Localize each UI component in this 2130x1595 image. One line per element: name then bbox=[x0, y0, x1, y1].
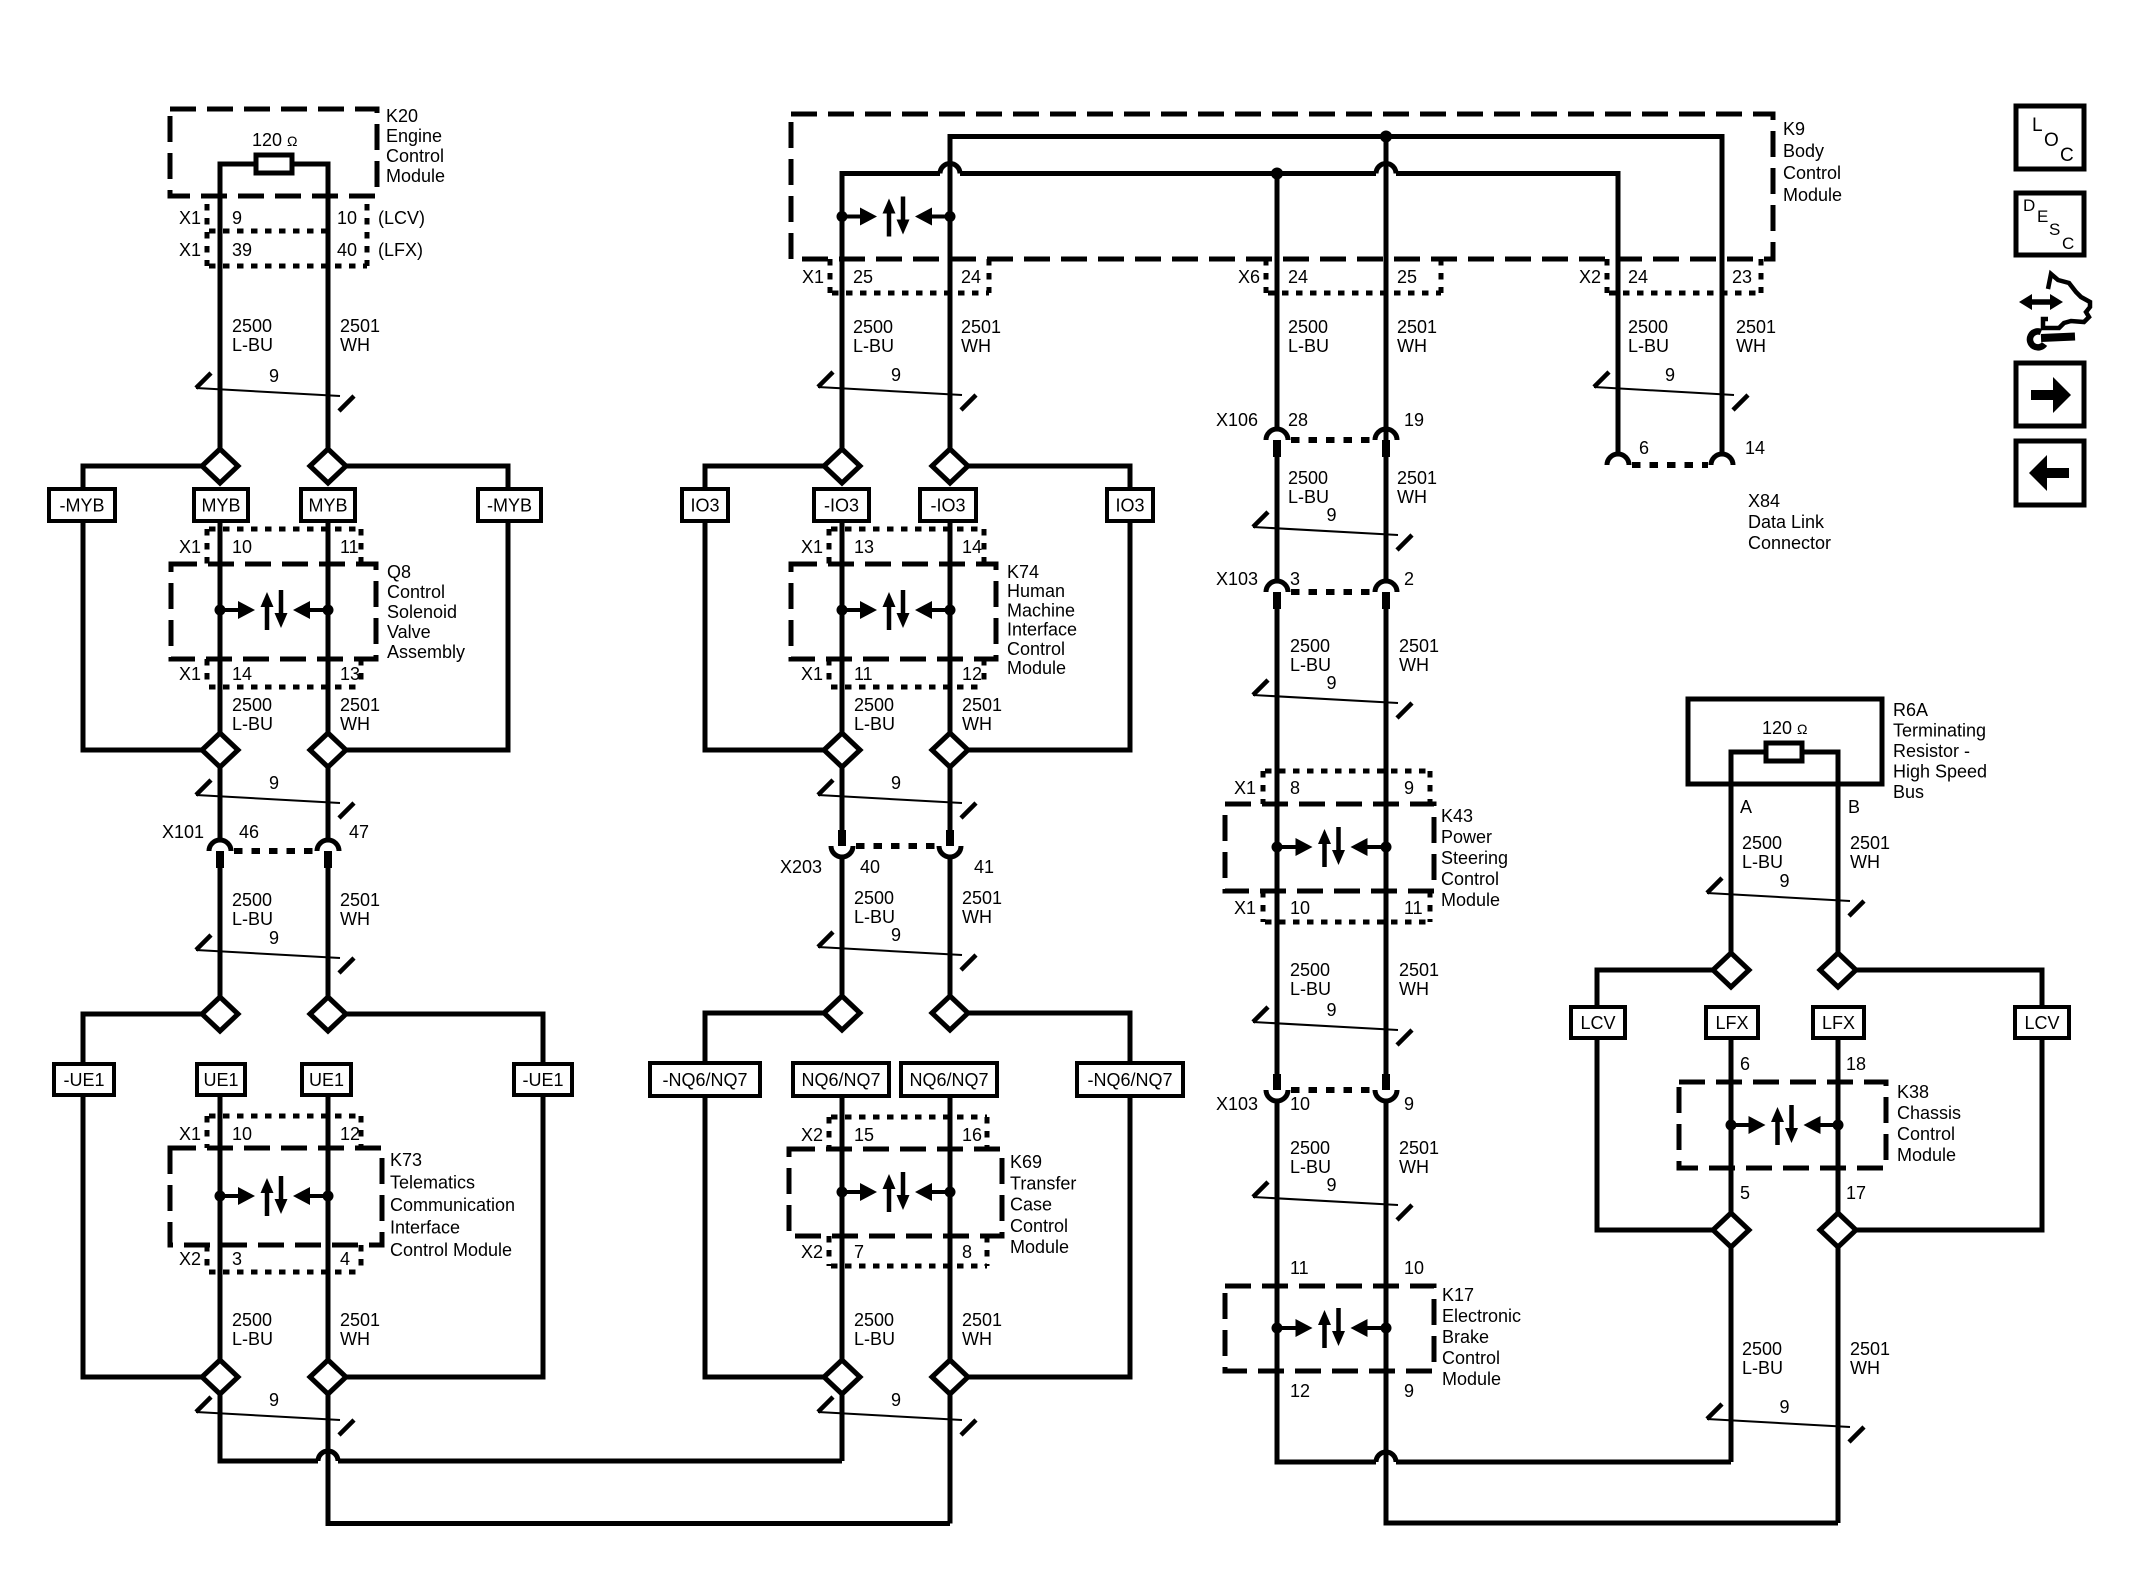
svg-text:WH: WH bbox=[1736, 336, 1766, 356]
splice node on 2500 (top of K38 row) bbox=[1713, 953, 1749, 987]
splice node on 2501 (bottom of K73 row) bbox=[310, 1360, 346, 1394]
svg-text:Ω: Ω bbox=[287, 133, 297, 149]
splice node on 2500 (bottom of K74 row) bbox=[824, 733, 860, 767]
connector X106 dotted line bbox=[1291, 437, 1372, 443]
svg-text:9: 9 bbox=[269, 1390, 279, 1410]
svg-text:2501: 2501 bbox=[962, 695, 1002, 715]
splice node on 2500 (top of Q8 row) bbox=[202, 449, 238, 483]
svg-text:B: B bbox=[1848, 797, 1860, 817]
svg-text:2501: 2501 bbox=[340, 695, 380, 715]
wire 2501 WH from K9 X1-24 bbox=[948, 134, 953, 449]
wire drop into IO3 box bbox=[703, 464, 708, 492]
svg-text:X1: X1 bbox=[179, 1124, 201, 1144]
net name box MYB (left) bbox=[194, 489, 248, 521]
svg-text:9: 9 bbox=[891, 365, 901, 385]
connector hook X101 pin 46 bbox=[209, 840, 231, 851]
pin box right edge (K74 top) bbox=[982, 529, 987, 564]
twisted-pair marker (to K69 row), 9 bbox=[818, 925, 976, 970]
wire 2501 WH through K74 bbox=[948, 519, 953, 733]
svg-text:LFX: LFX bbox=[1715, 1013, 1748, 1033]
svg-text:-UE1: -UE1 bbox=[522, 1070, 563, 1090]
connector hook X84 pin 14 bbox=[1711, 454, 1733, 465]
net name box -UE1 (right) bbox=[514, 1064, 572, 1095]
svg-text:X1: X1 bbox=[802, 267, 824, 287]
twisted-pair marker (K43 to X103), 9 bbox=[1253, 1000, 1412, 1045]
svg-text:WH: WH bbox=[1850, 1358, 1880, 1378]
module K9 Body Control Module (dashed outline) bbox=[791, 114, 1773, 259]
bus wire to -NQ6/NQ7 branch bbox=[705, 1011, 824, 1016]
svg-text:14: 14 bbox=[962, 537, 982, 557]
connector hook X103 pin 3 bbox=[1266, 581, 1288, 592]
net name box -IO3 (left) bbox=[814, 489, 869, 521]
splice node on 2500 (top of K69 row) bbox=[824, 996, 860, 1030]
pin box right edge (K43 top) bbox=[1428, 771, 1433, 804]
svg-text:X2: X2 bbox=[179, 1249, 201, 1269]
connector stub X203 pin 41 bbox=[946, 830, 954, 846]
wire resistor left lead bbox=[222, 162, 256, 167]
svg-text:2501: 2501 bbox=[962, 1310, 1002, 1330]
net name box NQ6/NQ7 (left) bbox=[793, 1063, 889, 1096]
wire 2501 WH through K38 bbox=[1836, 1036, 1841, 1213]
wire 2501 WH from K9 X6-25 through X106 bbox=[1384, 137, 1389, 582]
net name box LFX (left) bbox=[1706, 1007, 1758, 1038]
svg-text:-IO3: -IO3 bbox=[824, 496, 859, 516]
wire from LCV box to lower bus right bbox=[2040, 1036, 2045, 1233]
svg-text:-NQ6/NQ7: -NQ6/NQ7 bbox=[662, 1070, 747, 1090]
wire 2500 L-BU rise to K69 bbox=[840, 1394, 845, 1461]
splice node on 2500 (bottom of K73 row) bbox=[202, 1360, 238, 1394]
wire drop into -NQ6/NQ7 box right bbox=[1128, 1011, 1133, 1066]
svg-text:X1: X1 bbox=[179, 537, 201, 557]
svg-text:L-BU: L-BU bbox=[232, 335, 273, 355]
module K73 Telematics Communication Interface Control Module (dashed outline) bbox=[170, 1148, 382, 1245]
wire resistor right lead (R6A) bbox=[1802, 750, 1838, 755]
wire 2501 WH X103 to K17 and cross-link bbox=[1384, 1101, 1389, 1526]
svg-text:LCV: LCV bbox=[1580, 1013, 1615, 1033]
wire 2500 L-BU from R6A pin A bbox=[1729, 750, 1734, 954]
svg-text:9: 9 bbox=[1326, 1000, 1336, 1020]
wire 2500 L-BU from X101 bbox=[218, 860, 223, 997]
svg-text:17: 17 bbox=[1846, 1183, 1866, 1203]
svg-text:9: 9 bbox=[269, 928, 279, 948]
svg-text:39: 39 bbox=[232, 240, 252, 260]
svg-text:9: 9 bbox=[1326, 1175, 1336, 1195]
wire 2501 WH cross-link K17 to K38 bbox=[1384, 1521, 1839, 1526]
wire 2501 WH to X2 pin 23 / X84 bbox=[1720, 134, 1725, 456]
wire from -NQ6/NQ7 box to lower bus bbox=[703, 1094, 708, 1380]
bus wire to IO3 branch right bbox=[968, 464, 1130, 469]
splice node on 2501 (bottom of K74 row) bbox=[932, 733, 968, 767]
net name box UE1 (right) bbox=[302, 1064, 351, 1095]
svg-text:14: 14 bbox=[1745, 438, 1765, 458]
svg-text:11: 11 bbox=[854, 664, 873, 684]
connector hook X103 pin 10 bbox=[1266, 1090, 1288, 1101]
svg-text:NQ6/NQ7: NQ6/NQ7 bbox=[909, 1070, 988, 1090]
pin box divider (K43 bottom) bbox=[1261, 891, 1266, 922]
svg-text:3: 3 bbox=[1290, 569, 1300, 589]
svg-text:9: 9 bbox=[269, 366, 279, 386]
svg-text:13: 13 bbox=[340, 664, 360, 684]
svg-text:2501: 2501 bbox=[961, 317, 1001, 337]
svg-text:L-BU: L-BU bbox=[1288, 336, 1329, 356]
pin box bottom edge (Q8) bbox=[209, 685, 361, 690]
wire 2500 L-BU from K9 X1-25 bbox=[840, 171, 845, 449]
splice node on 2500 (top of K73 row) bbox=[202, 997, 238, 1031]
bus wire from IO3 branch bbox=[705, 748, 824, 753]
wire drop into -UE1 box right bbox=[541, 1012, 546, 1067]
svg-text:L-BU: L-BU bbox=[1290, 1157, 1331, 1177]
svg-text:2500: 2500 bbox=[854, 695, 894, 715]
svg-text:WH: WH bbox=[340, 909, 370, 929]
CAN transceiver symbol inside K43 bbox=[1272, 827, 1392, 867]
wire 2501 WH through K69 bbox=[948, 1094, 953, 1360]
svg-text:-IO3: -IO3 bbox=[930, 496, 965, 516]
svg-text:5: 5 bbox=[1740, 1183, 1750, 1203]
svg-text:WH: WH bbox=[1399, 655, 1429, 675]
pin box right edge (K43 bottom) bbox=[1428, 891, 1433, 922]
pin box divider (K73 top) bbox=[205, 1116, 210, 1148]
bus wire to IO3 branch bbox=[705, 464, 824, 469]
svg-text:10: 10 bbox=[1404, 1258, 1424, 1278]
twisted-pair marker (X106 to X103), 9 bbox=[1253, 505, 1412, 550]
net name box -MYB (right) bbox=[478, 489, 541, 521]
net name box -NQ6/NQ7 (left) bbox=[650, 1063, 760, 1096]
svg-text:2500: 2500 bbox=[1628, 317, 1668, 337]
svg-text:2501: 2501 bbox=[1397, 468, 1437, 488]
svg-text:S: S bbox=[2049, 220, 2060, 239]
pin box divider (K74 top) bbox=[827, 529, 832, 564]
pin box divider (K43 top) bbox=[1261, 771, 1266, 804]
connector hook X84 pin 6 bbox=[1607, 454, 1629, 465]
svg-text:X101: X101 bbox=[162, 822, 204, 842]
wire 2501 WH through K73 bbox=[326, 1093, 331, 1360]
CAN transceiver symbol inside K73 bbox=[215, 1176, 334, 1216]
svg-text:120: 120 bbox=[252, 130, 282, 150]
pin box right edge (K9 X2) bbox=[1759, 259, 1764, 293]
svg-text:19: 19 bbox=[1404, 410, 1424, 430]
svg-text:L-BU: L-BU bbox=[232, 1329, 273, 1349]
svg-text:-UE1: -UE1 bbox=[63, 1070, 104, 1090]
connector hook X203 pin 40 bbox=[831, 846, 853, 857]
pin box right edge (K9 X6) bbox=[1439, 259, 1444, 293]
svg-text:2500: 2500 bbox=[1290, 960, 1330, 980]
svg-text:C: C bbox=[2062, 234, 2074, 253]
pin box bottom edge (K20) bbox=[209, 264, 367, 269]
svg-text:11: 11 bbox=[1290, 1258, 1309, 1278]
pin box right edge (K69 top) bbox=[985, 1117, 990, 1149]
svg-text:L: L bbox=[2032, 115, 2043, 136]
wire drop into -NQ6/NQ7 box bbox=[703, 1011, 708, 1066]
svg-text:9: 9 bbox=[1326, 505, 1336, 525]
pin box divider (Q8 top) bbox=[205, 529, 210, 564]
wire drop into -MYB box right bbox=[506, 464, 511, 492]
wire 2500 L-BU cross-link K17 to K38 (hop over 2501) bbox=[1275, 1452, 1732, 1462]
bus wire from -MYB branch right bbox=[346, 748, 508, 753]
svg-text:9: 9 bbox=[1404, 1381, 1414, 1401]
net name box LFX (right) bbox=[1813, 1007, 1864, 1038]
wire resistor right lead bbox=[292, 162, 330, 167]
svg-text:L-BU: L-BU bbox=[854, 1329, 895, 1349]
svg-text:MYB: MYB bbox=[308, 496, 347, 516]
bus wire to LCV branch bbox=[1597, 968, 1713, 973]
connector hook X101 pin 47 bbox=[317, 840, 339, 851]
svg-text:2500: 2500 bbox=[1288, 468, 1328, 488]
pin box divider (Q8 bottom) bbox=[205, 659, 210, 687]
svg-text:X1: X1 bbox=[1234, 778, 1256, 798]
pin box divider (K20) bbox=[205, 204, 210, 266]
wire 2500 L-BU to X101 bbox=[218, 767, 223, 840]
wire 2501 WH to X203 bbox=[948, 767, 953, 830]
svg-text:X103: X103 bbox=[1216, 1094, 1258, 1114]
connector X84 dotted line bbox=[1632, 462, 1708, 468]
wire 2500 L-BU to X2 pin 24 / X84 bbox=[1616, 171, 1621, 456]
svg-text:9: 9 bbox=[891, 1390, 901, 1410]
bus wire to LCV branch right bbox=[1856, 968, 2042, 973]
wire 2501 WH from X203 bbox=[948, 857, 953, 996]
wire from IO3 box to lower bus bbox=[703, 519, 708, 753]
svg-text:WH: WH bbox=[1397, 336, 1427, 356]
svg-text:9: 9 bbox=[1779, 871, 1789, 891]
twisted-pair marker (K20 to splice), 9 bbox=[196, 366, 354, 411]
bus wire from -NQ6/NQ7 branch right bbox=[968, 1375, 1130, 1380]
splice node on 2501 (top of K73 row) bbox=[310, 997, 346, 1031]
pin box right edge (K73 bottom) bbox=[359, 1245, 364, 1272]
svg-text:X1: X1 bbox=[179, 240, 201, 260]
svg-text:24: 24 bbox=[1628, 267, 1648, 287]
svg-text:L-BU: L-BU bbox=[854, 907, 895, 927]
wire 2501 WH through Q8 bbox=[326, 519, 331, 733]
svg-text:LCV: LCV bbox=[2024, 1013, 2059, 1033]
svg-text:9: 9 bbox=[269, 773, 279, 793]
pin box divider (K74 bottom) bbox=[827, 659, 832, 687]
svg-text:X2: X2 bbox=[801, 1242, 823, 1262]
twisted-pair marker (X103 to K17), 9 bbox=[1253, 1175, 1412, 1220]
wire 2501 WH cross-link K73 to K69 bbox=[326, 1521, 951, 1526]
twisted-pair marker (to X101), 9 bbox=[196, 773, 354, 818]
connector stub X103 pin 10 bbox=[1273, 1074, 1281, 1090]
splice node on 2501 (bottom of K38 row) bbox=[1820, 1213, 1856, 1247]
bus wire to -UE1 branch bbox=[83, 1012, 202, 1017]
svg-text:4: 4 bbox=[340, 1249, 350, 1269]
svg-text:WH: WH bbox=[1850, 852, 1880, 872]
svg-text:6: 6 bbox=[1740, 1054, 1750, 1074]
svg-text:2500: 2500 bbox=[854, 1310, 894, 1330]
svg-text:UE1: UE1 bbox=[203, 1070, 238, 1090]
net name box IO3 (right) bbox=[1107, 489, 1153, 521]
svg-text:2501: 2501 bbox=[1397, 317, 1437, 337]
svg-text:40: 40 bbox=[337, 240, 357, 260]
module K20 Engine Control Module (dashed outline) bbox=[170, 109, 377, 196]
svg-text:X1: X1 bbox=[179, 664, 201, 684]
twisted-pair marker (K9 to X84), 9 bbox=[1594, 365, 1748, 410]
svg-text:WH: WH bbox=[962, 1329, 992, 1349]
connector hook X103 pin 2 bbox=[1375, 581, 1397, 592]
K9 internal bus CAN-low (hops over crossing wires) bbox=[842, 164, 1618, 174]
pin box divider (K9 X1) bbox=[828, 259, 833, 293]
svg-text:25: 25 bbox=[853, 267, 873, 287]
CAN transceiver symbol inside K69 bbox=[837, 1172, 956, 1212]
svg-text:X203: X203 bbox=[780, 857, 822, 877]
pin box right edge (K20) bbox=[365, 204, 370, 266]
svg-text:WH: WH bbox=[962, 907, 992, 927]
svg-text:C: C bbox=[2060, 145, 2074, 166]
wire from -MYB box to lower bus bbox=[81, 519, 86, 753]
svg-text:16: 16 bbox=[962, 1125, 982, 1145]
svg-text:9: 9 bbox=[891, 925, 901, 945]
svg-text:WH: WH bbox=[1397, 487, 1427, 507]
svg-text:10: 10 bbox=[1290, 1094, 1310, 1114]
svg-text:-MYB: -MYB bbox=[60, 496, 105, 516]
bus wire from -NQ6/NQ7 branch bbox=[705, 1375, 824, 1380]
svg-text:WH: WH bbox=[340, 1329, 370, 1349]
pin box bottom edge (K69) bbox=[831, 1264, 987, 1269]
module K74 Human Machine Interface Control Module (dashed outline) bbox=[791, 564, 996, 659]
svg-text:2500: 2500 bbox=[853, 317, 893, 337]
wire 2501 WH rise to K69 bbox=[948, 1394, 953, 1524]
svg-text:WH: WH bbox=[1399, 979, 1429, 999]
wire 2500 L-BU through K69 bbox=[840, 1094, 845, 1360]
svg-text:9: 9 bbox=[1326, 673, 1336, 693]
pin box top edge (K74) bbox=[831, 527, 984, 532]
svg-text:(LFX): (LFX) bbox=[378, 240, 423, 260]
svg-text:A: A bbox=[1740, 797, 1752, 817]
svg-text:14: 14 bbox=[232, 664, 252, 684]
connector X103 dotted line (second) bbox=[1291, 1087, 1372, 1093]
wire 2501 WH from R6A pin B bbox=[1836, 750, 1841, 954]
wire drop into -UE1 box bbox=[81, 1012, 86, 1067]
splice node on 2501 (bottom of Q8 row) bbox=[310, 733, 346, 767]
svg-text:24: 24 bbox=[961, 267, 981, 287]
icon button DESC bbox=[2016, 193, 2084, 255]
svg-text:L-BU: L-BU bbox=[1742, 852, 1783, 872]
svg-text:NQ6/NQ7: NQ6/NQ7 bbox=[801, 1070, 880, 1090]
wire from -UE1 box to lower bus bbox=[81, 1093, 86, 1380]
bus wire from -UE1 branch bbox=[83, 1375, 202, 1380]
wire 2501 WH down to cross-link bbox=[1836, 1247, 1841, 1523]
svg-text:WH: WH bbox=[962, 714, 992, 734]
svg-text:IO3: IO3 bbox=[1115, 496, 1144, 516]
CAN transceiver symbol inside K9 bbox=[837, 197, 956, 237]
svg-text:E: E bbox=[2037, 207, 2048, 226]
junction dot K9 bus to X6 pin 24 bbox=[1271, 168, 1283, 180]
wire 2500 L-BU through K73 bbox=[218, 1093, 223, 1360]
svg-text:2500: 2500 bbox=[1742, 1339, 1782, 1359]
connector hook X103 pin 9 bbox=[1375, 1090, 1397, 1101]
connector stub X106 pin 19 bbox=[1382, 440, 1390, 457]
K9 internal bus CAN-high bbox=[950, 134, 1722, 139]
svg-text:2500: 2500 bbox=[232, 1310, 272, 1330]
svg-text:X106: X106 bbox=[1216, 410, 1258, 430]
svg-text:8: 8 bbox=[1290, 778, 1300, 798]
junction dot K9 bus to X6 pin 25 bbox=[1380, 131, 1392, 143]
net name box UE1 (left) bbox=[197, 1064, 245, 1095]
wire resistor left lead (R6A) bbox=[1731, 750, 1766, 755]
icon button next (right arrow) bbox=[2016, 363, 2084, 426]
svg-text:11: 11 bbox=[1404, 898, 1423, 918]
connector stub X101 pin 46 bbox=[216, 851, 224, 868]
wire 2501 WH down to cross-link bbox=[326, 1394, 331, 1526]
bus wire to -NQ6/NQ7 branch right bbox=[968, 1011, 1130, 1016]
svg-text:2500: 2500 bbox=[1288, 317, 1328, 337]
wire 2501 WH X106 to X103 bbox=[1384, 449, 1389, 581]
wire 2500 L-BU from X203 bbox=[840, 857, 845, 996]
connector stub X103 pin 3 bbox=[1273, 592, 1281, 609]
connector hook X106 pin 28 bbox=[1266, 429, 1288, 440]
wire from LCV box to lower bus bbox=[1595, 1036, 1600, 1233]
svg-text:18: 18 bbox=[1846, 1054, 1866, 1074]
pin box right edge (K74 bottom) bbox=[982, 659, 987, 687]
svg-text:D: D bbox=[2023, 196, 2035, 215]
net name box LCV (right) bbox=[2015, 1007, 2069, 1038]
splice node on 2500 (bottom of K69 row) bbox=[824, 1360, 860, 1394]
svg-text:2501: 2501 bbox=[340, 890, 380, 910]
svg-text:12: 12 bbox=[340, 1124, 360, 1144]
twisted-pair marker (to K73 row), 9 bbox=[196, 928, 354, 973]
svg-text:15: 15 bbox=[854, 1125, 874, 1145]
connector stub X103 pin 2 bbox=[1382, 592, 1390, 609]
svg-text:7: 7 bbox=[854, 1242, 864, 1262]
svg-text:X1: X1 bbox=[801, 664, 823, 684]
svg-text:12: 12 bbox=[1290, 1381, 1310, 1401]
pin box divider (K9 X6) bbox=[1264, 259, 1269, 293]
svg-text:2500: 2500 bbox=[1290, 1138, 1330, 1158]
svg-text:3: 3 bbox=[232, 1249, 242, 1269]
bus wire from IO3 branch right bbox=[968, 748, 1130, 753]
pin box bottom edge (K74) bbox=[831, 685, 984, 690]
resistor 120 ohm inside R6A bbox=[1762, 718, 1808, 761]
svg-text:9: 9 bbox=[1404, 1094, 1414, 1114]
pin box divider (K69 top) bbox=[827, 1117, 832, 1149]
connector stub X203 pin 40 bbox=[838, 830, 846, 846]
component R6A Terminating Resistor - High Speed Bus (box) bbox=[1688, 699, 1882, 784]
connector X103 dotted line bbox=[1291, 589, 1372, 595]
wire 2501 WH from X101 bbox=[326, 860, 331, 997]
wire 2500 L-BU through K38 bbox=[1729, 1036, 1734, 1213]
connector X101 dotted line bbox=[234, 848, 314, 854]
svg-text:L-BU: L-BU bbox=[1288, 487, 1329, 507]
splice node on 2500 (top of K74 row) bbox=[824, 449, 860, 483]
wire drop into LCV box bbox=[1595, 968, 1600, 1010]
twisted-pair marker (K9 to K74 row), 9 bbox=[818, 365, 976, 410]
svg-text:L-BU: L-BU bbox=[1628, 336, 1669, 356]
svg-text:9: 9 bbox=[1404, 778, 1414, 798]
net name box -UE1 (left) bbox=[54, 1064, 114, 1095]
svg-text:2500: 2500 bbox=[232, 695, 272, 715]
wire 2500 L-BU down to cross-link bbox=[1729, 1247, 1734, 1462]
icon connector repair (double arrow, connector outline, wrench) bbox=[2019, 274, 2090, 347]
connector stub X101 pin 47 bbox=[324, 851, 332, 868]
svg-text:L-BU: L-BU bbox=[1290, 655, 1331, 675]
wire 2500 L-BU cross-link K73 to K69 (hop over 2501) bbox=[218, 1451, 843, 1461]
svg-text:X1: X1 bbox=[801, 537, 823, 557]
svg-text:L-BU: L-BU bbox=[1290, 979, 1331, 999]
svg-text:28: 28 bbox=[1288, 410, 1308, 430]
svg-text:10: 10 bbox=[232, 1124, 252, 1144]
wire 2500 L-BU X103 to K17 and cross-link bbox=[1275, 1101, 1280, 1465]
wire from -NQ6/NQ7 box to lower bus right bbox=[1128, 1094, 1133, 1380]
wire drop into IO3 box right bbox=[1128, 464, 1133, 492]
net name box LCV (left) bbox=[1571, 1007, 1625, 1038]
svg-text:2501: 2501 bbox=[1736, 317, 1776, 337]
svg-text:2500: 2500 bbox=[232, 890, 272, 910]
svg-text:6: 6 bbox=[1639, 438, 1649, 458]
svg-text:2501: 2501 bbox=[1399, 636, 1439, 656]
wire 2500 L-BU from K9 X6-24 to X106 bbox=[1275, 174, 1280, 430]
pin box bottom edge (K9 X2) bbox=[1609, 291, 1761, 296]
pin box right edge (K9 X1) bbox=[987, 259, 992, 293]
svg-text:WH: WH bbox=[961, 336, 991, 356]
svg-text:41: 41 bbox=[974, 857, 994, 877]
